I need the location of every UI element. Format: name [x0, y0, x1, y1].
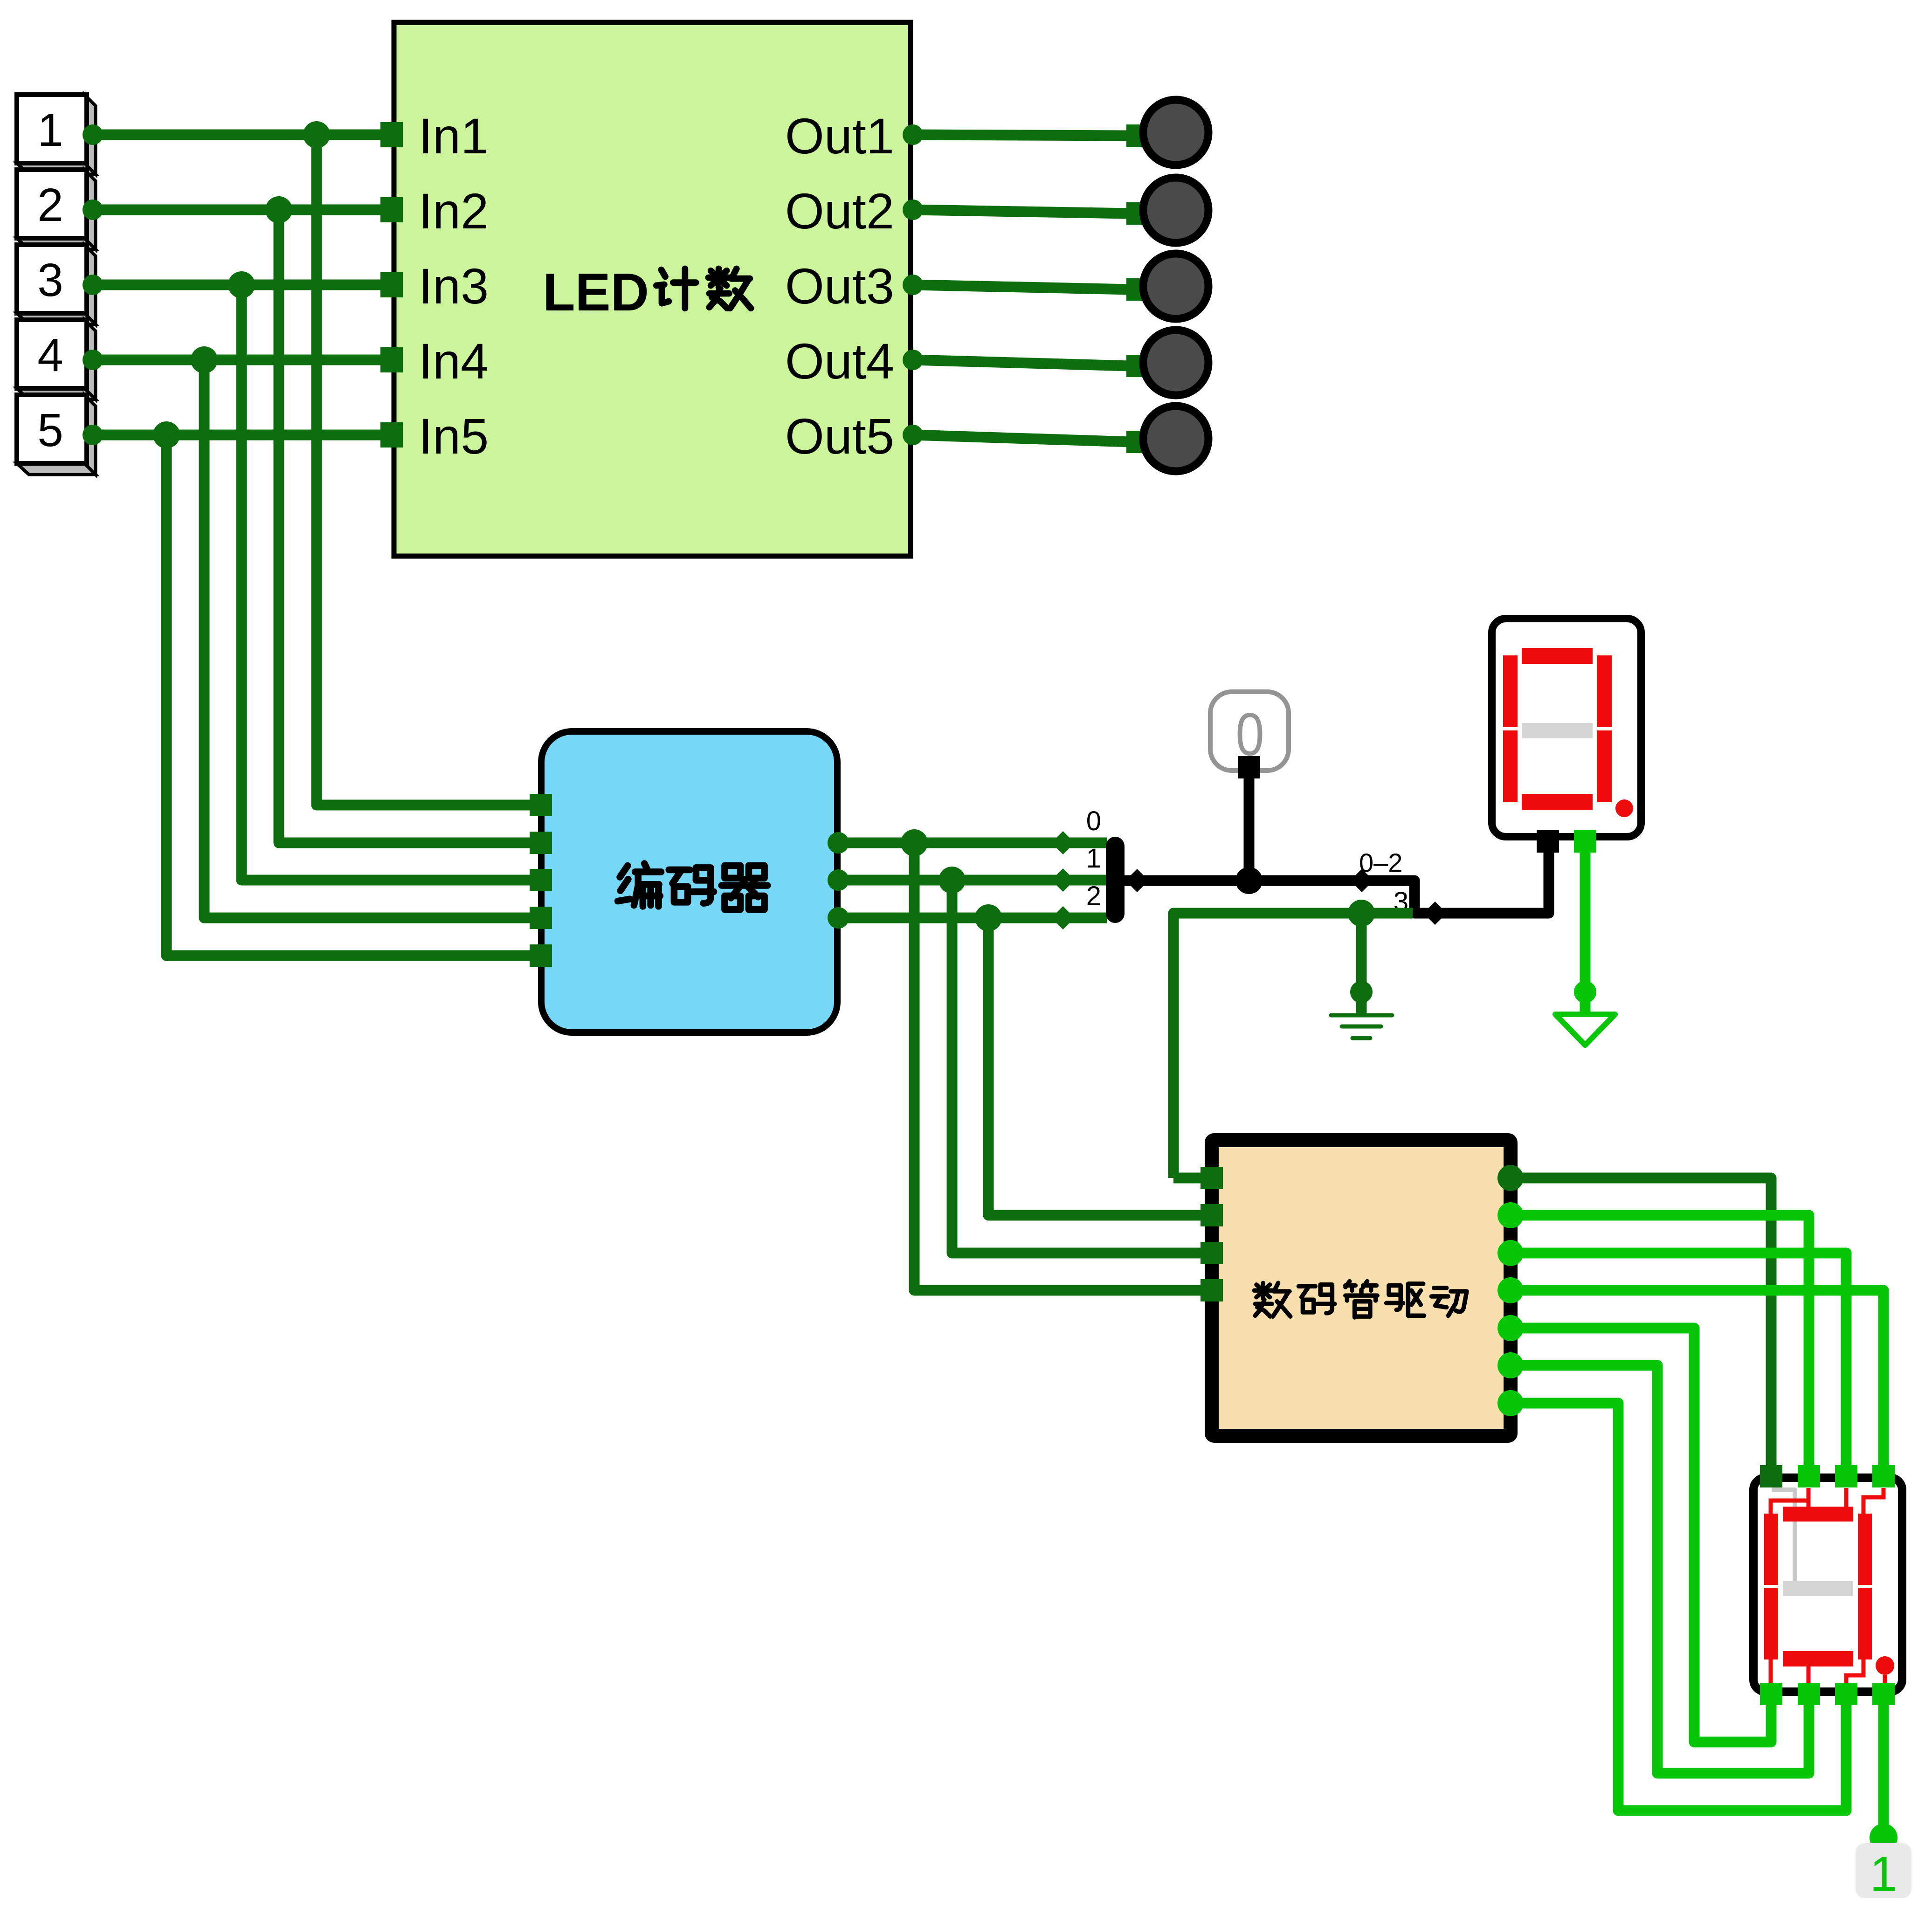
- encoder input pin 1: [530, 794, 552, 816]
- display2 top pin4: [1872, 1465, 1895, 1487]
- display1 segment g (off): [1522, 723, 1593, 738]
- button 3 output pin dot: [83, 275, 103, 295]
- junction on In1 row: [303, 121, 330, 148]
- wire driver out7 to display2 bottom pin3: [1511, 1403, 1846, 1811]
- bus bundler bar: [1106, 837, 1125, 923]
- driver output pin 7: [1497, 1390, 1524, 1416]
- junction on In3 row: [228, 271, 255, 298]
- button 2 output pin dot: [83, 200, 103, 220]
- svg-text:Out5: Out5: [785, 408, 894, 464]
- encoder input pin 2: [530, 832, 552, 854]
- wire Out2 to LED 2: [913, 210, 1131, 213]
- title 数码管驱动: [1254, 1283, 1290, 1316]
- wire out1 down to driver input 3: [952, 880, 1203, 1253]
- svg-text:Out3: Out3: [785, 258, 894, 314]
- encoder input pin 3: [530, 869, 552, 891]
- encoder input pin 5: [530, 944, 552, 967]
- svg-text:0: 0: [1086, 806, 1101, 836]
- junction bus / constant0: [1235, 867, 1263, 894]
- wire Out3 to LED 3: [913, 285, 1131, 289]
- wire net3: encoder row2 tap to bus merge and driver input 1: [1173, 913, 1413, 1178]
- svg-text:0–2: 0–2: [1359, 848, 1402, 877]
- input button 3: [17, 245, 96, 324]
- driver output pin 5: [1497, 1315, 1524, 1341]
- wire net3 to ground: [1356, 913, 1367, 1014]
- pin In4: [380, 347, 403, 372]
- encoder input pin 4: [530, 907, 552, 929]
- display2 bottom pin1: [1760, 1683, 1782, 1705]
- wire: button 4 to In4 and encoder input 4: [86, 355, 394, 365]
- constant 0 source box: [1210, 692, 1289, 771]
- svg-text:In1: In1: [419, 108, 489, 164]
- wire display1 enable down: [1580, 853, 1591, 1014]
- wire driver out4 to display2 top pin4: [1511, 1290, 1884, 1471]
- LED 3: [1143, 254, 1208, 319]
- display2 segment g (off): [1783, 1581, 1853, 1596]
- wire display2 bottom pin4 to label: [1878, 1705, 1889, 1841]
- wire encoder out0 to bus tap 0: [837, 838, 1107, 848]
- junction out2: [975, 904, 1002, 931]
- wire driver out6 to display2 bottom pin2: [1511, 1365, 1809, 1773]
- display2 segment c: [1858, 1588, 1872, 1659]
- display2 red traces: [1771, 1488, 1885, 1684]
- driver input pin 2: [1201, 1204, 1223, 1226]
- pin In1: [380, 122, 403, 147]
- constant 0 pin: [1238, 756, 1260, 778]
- bus output diamond: [1125, 869, 1149, 892]
- LED 5: [1143, 406, 1208, 471]
- display2 segment a: [1783, 1507, 1853, 1522]
- display2 segment e: [1764, 1588, 1778, 1659]
- svg-text:5: 5: [37, 404, 63, 456]
- pin In2: [380, 197, 403, 222]
- display1 segment e: [1503, 730, 1518, 802]
- display2 segment f: [1764, 1514, 1778, 1585]
- title 编码器: [618, 863, 661, 906]
- svg-text:LED: LED: [543, 263, 649, 322]
- wire out2 down to driver input 2: [988, 918, 1203, 1215]
- driver input pin 1: [1201, 1167, 1223, 1189]
- svg-text:2: 2: [1086, 881, 1101, 911]
- wire driver out3 to display2 top pin3: [1511, 1253, 1846, 1471]
- wire out0 down to driver input 4: [914, 843, 1203, 1290]
- svg-text:Out2: Out2: [785, 183, 894, 239]
- driver output pin 3: [1497, 1240, 1524, 1266]
- svg-text:In5: In5: [419, 408, 489, 464]
- junction out0: [901, 829, 928, 856]
- display1 segment a: [1522, 648, 1593, 664]
- wire encoder out2 to bus tap 2: [837, 913, 1107, 923]
- LED 1: [1143, 100, 1208, 165]
- wire constant 0 down to bus: [1244, 774, 1255, 881]
- driver input pin 4: [1201, 1279, 1223, 1301]
- button 4 output pin dot: [83, 350, 103, 370]
- button 1 output pin dot: [83, 124, 103, 145]
- display2 segment b: [1858, 1514, 1872, 1585]
- junction out1: [938, 867, 966, 894]
- input button 4: [17, 320, 96, 399]
- block: 7-seg driver (数码管驱动): [1212, 1140, 1511, 1436]
- ground symbol: [1331, 1015, 1392, 1038]
- display2 bottom pin4: [1872, 1683, 1895, 1705]
- bus tap diamond 0: [1051, 831, 1075, 854]
- svg-text:1: 1: [37, 104, 63, 156]
- encoder output pin 0: [828, 832, 849, 854]
- driver output pin 4: [1497, 1277, 1524, 1303]
- junction net3: [1348, 900, 1375, 927]
- svg-text:In2: In2: [419, 183, 489, 239]
- input button 1: [17, 95, 96, 174]
- svg-text:In4: In4: [419, 333, 489, 389]
- driver output pin 1: [1497, 1165, 1524, 1191]
- driver input pin 3: [1201, 1242, 1223, 1264]
- encoder output pin 2: [828, 907, 849, 929]
- 7-segment display 1: [1492, 619, 1641, 837]
- display1 segment c: [1597, 730, 1612, 802]
- input button 2: [17, 170, 96, 249]
- wire encoder out1 to bus tap 1: [837, 875, 1107, 886]
- output driver arrow symbol: [1555, 1014, 1615, 1045]
- bus tap diamond 1: [1051, 868, 1075, 892]
- svg-text:1: 1: [1870, 1846, 1897, 1901]
- display2 segment d: [1783, 1651, 1853, 1666]
- net label 1: [1856, 1843, 1911, 1898]
- display2 bottom pin2: [1798, 1683, 1820, 1705]
- bus range diamond 0-2: [1350, 869, 1373, 892]
- driver output pin 6: [1497, 1352, 1524, 1378]
- driver output pin 2: [1497, 1202, 1524, 1228]
- svg-text:3: 3: [37, 254, 63, 306]
- block: LED counter (LED计数): [394, 22, 911, 556]
- svg-text:1: 1: [1086, 843, 1101, 874]
- wire driver out2 to display2 top pin2: [1511, 1215, 1809, 1471]
- LED 4: [1143, 330, 1208, 395]
- display2 bottom pin3: [1835, 1683, 1857, 1705]
- pin In3: [380, 272, 403, 297]
- wire driver out1 to display2 top pin1: [1511, 1178, 1771, 1471]
- svg-text:2: 2: [37, 179, 63, 231]
- display2 top pin2: [1798, 1465, 1820, 1487]
- block: encoder (编码器): [541, 731, 837, 1033]
- bus wire to 7-segment display 1: [1125, 845, 1549, 913]
- wire Out1 to LED 1: [913, 135, 1131, 136]
- pin In5: [380, 422, 403, 448]
- svg-text:Out4: Out4: [785, 333, 894, 389]
- wire Out4 to LED 4: [913, 360, 1131, 366]
- svg-text:Out1: Out1: [785, 108, 894, 164]
- display1 value pin: [1537, 830, 1559, 853]
- button 5 output pin dot: [83, 425, 103, 445]
- wire driver out5 to display2 bottom pin1: [1511, 1328, 1771, 1742]
- LED 2: [1143, 178, 1208, 243]
- wire: button 2 to In2 and encoder input 2: [86, 205, 394, 215]
- display2 gray trace: [1772, 1490, 1795, 1584]
- display1 segment b: [1597, 655, 1612, 727]
- display2 decimal point: [1876, 1656, 1894, 1675]
- svg-text:4: 4: [37, 329, 63, 381]
- 7-segment display 2: [1753, 1478, 1902, 1692]
- display1 decimal point: [1615, 799, 1633, 817]
- bus merge diamond: [1423, 902, 1447, 925]
- encoder output pin 1: [828, 869, 849, 891]
- junction on In5 row: [153, 421, 180, 448]
- junction on In4 row: [191, 346, 218, 373]
- display2 top pin3: [1835, 1465, 1857, 1487]
- display2 top pin1: [1760, 1465, 1782, 1487]
- bus tap diamond 2: [1051, 906, 1075, 930]
- svg-text:In3: In3: [419, 258, 489, 314]
- display1 segment d: [1522, 794, 1593, 810]
- wire: button 3 to In3 and encoder input 3: [86, 280, 394, 290]
- display1 segment f: [1503, 655, 1518, 727]
- display1 enable pin: [1574, 830, 1596, 853]
- wire: button 5 to In5 and encoder input 5: [86, 430, 394, 441]
- junction on In2 row: [265, 196, 292, 223]
- wire: button 1 to In1 and encoder input 1: [86, 130, 394, 140]
- input button 5: [17, 395, 96, 475]
- wire Out5 to LED 5: [913, 435, 1131, 442]
